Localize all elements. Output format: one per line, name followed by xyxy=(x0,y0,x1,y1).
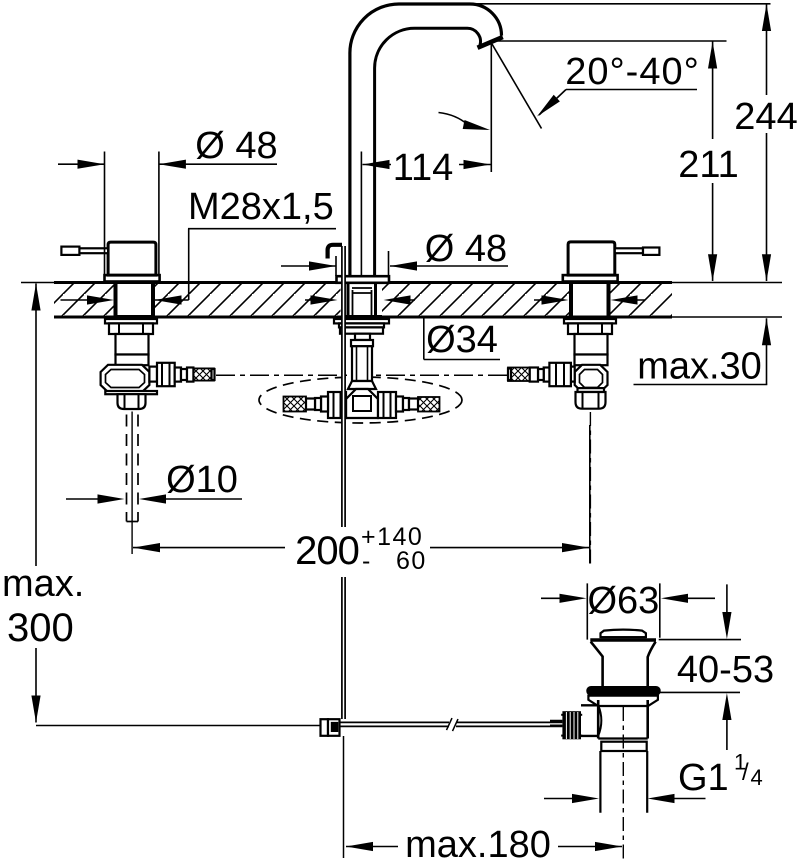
hatching xyxy=(54,284,114,316)
svg-text:200: 200 xyxy=(295,529,359,573)
svg-text:max.: max. xyxy=(2,563,84,605)
rod clamp block xyxy=(328,719,340,736)
knurled adjuster knob xyxy=(562,711,581,739)
swivel envelope dashed ellipse xyxy=(259,377,462,423)
left valve washer xyxy=(105,319,157,323)
svg-text:40-53: 40-53 xyxy=(677,649,774,691)
center right adapter rings xyxy=(396,397,403,412)
dim G1 1/4 xyxy=(544,798,706,800)
waste plug cap xyxy=(601,630,646,638)
svg-text:Ø 48: Ø 48 xyxy=(425,228,507,270)
counter bottom extension line right xyxy=(672,316,782,318)
counter top surface line xyxy=(54,281,672,284)
svg-text:Ø10: Ø10 xyxy=(166,459,238,501)
dim Ø10 xyxy=(66,498,242,500)
horizontal rod stub into knob xyxy=(550,721,562,726)
left handle lever paddle xyxy=(61,247,79,255)
right valve block xyxy=(575,365,608,392)
left valve hose adapter xyxy=(175,368,181,382)
rod clamp left stub xyxy=(321,719,329,736)
rod break marks xyxy=(447,718,459,731)
center tee nut xyxy=(340,327,383,333)
right handle lever stem xyxy=(615,248,643,253)
center supply shank tube xyxy=(351,340,373,346)
dim Ø48 center: dimension lines xyxy=(281,265,508,267)
below-counter assemblies xyxy=(101,319,616,564)
above-counter faucet xyxy=(61,4,659,719)
center tee collar xyxy=(348,381,376,389)
svg-text:max.30: max.30 xyxy=(637,346,762,388)
waste coupling ring xyxy=(601,742,646,751)
svg-text:Ø34: Ø34 xyxy=(426,319,498,361)
svg-text:max.180: max.180 xyxy=(405,824,551,863)
spout inner contour xyxy=(375,28,481,276)
dim 114: extension lines xyxy=(360,152,362,277)
svg-text:-: - xyxy=(362,547,372,575)
waste tailpipe xyxy=(600,751,647,813)
right valve shank walls in hole xyxy=(569,284,573,317)
right valve compression nut xyxy=(549,363,571,386)
dim Ø63: dimension lines xyxy=(541,597,715,599)
dim max.30 xyxy=(766,318,768,384)
horizontal actuating rod xyxy=(340,722,450,726)
left handle lever stem xyxy=(79,248,108,253)
countertop hatched section xyxy=(21,283,782,320)
waste washer lip xyxy=(588,696,658,706)
right valve mounting nut xyxy=(568,323,612,334)
right valve washer xyxy=(564,319,616,323)
right valve braided hose xyxy=(508,368,530,382)
waste drain assembly xyxy=(550,630,661,860)
svg-text:4: 4 xyxy=(751,765,763,790)
left valve shank walls in hole xyxy=(114,284,118,317)
counter bottom line xyxy=(54,316,672,319)
Ø10 dashed hole outline xyxy=(127,415,139,522)
dim Ø48 left: dimension lines xyxy=(58,163,277,165)
svg-text:M28x1,5: M28x1,5 xyxy=(188,186,334,228)
dim M28 left valve arrows xyxy=(61,299,189,301)
dim 244: extension line xyxy=(468,3,771,5)
spout escutcheon xyxy=(337,276,390,283)
swivel arc arrow xyxy=(439,113,468,125)
svg-text:20°-40°: 20°-40° xyxy=(565,51,700,93)
svg-text:211: 211 xyxy=(678,144,739,186)
right valve lower nut xyxy=(576,392,606,409)
dim 20°-40°: leader and label xyxy=(566,89,697,91)
center shank walls in hole xyxy=(347,284,350,317)
waste O-ring seal xyxy=(586,686,660,696)
center tee left nut xyxy=(328,392,346,418)
center tee body xyxy=(346,389,378,418)
left valve mounting nut xyxy=(109,323,153,334)
left handle base escutcheon xyxy=(105,275,160,281)
right valve lower washer xyxy=(578,388,605,392)
dim Ø48 left: extension lines xyxy=(105,152,159,277)
right valve outlet stub xyxy=(571,367,575,382)
dim Ø63: extension lines xyxy=(587,583,660,639)
right valve shank body xyxy=(575,334,608,355)
left valve compression nut xyxy=(157,363,175,386)
svg-text:300: 300 xyxy=(7,606,74,650)
left valve outlet stub xyxy=(149,367,157,382)
dim 244: dimension line xyxy=(766,4,768,281)
spout outlet cut face xyxy=(478,37,503,48)
svg-text:G1: G1 xyxy=(678,757,729,799)
dim 20°-40°: stream direction line xyxy=(492,44,542,129)
dim 40-53 xyxy=(659,584,741,639)
waste funnel rim xyxy=(590,638,656,641)
right handle body xyxy=(568,242,615,275)
svg-text:Ø63: Ø63 xyxy=(587,580,659,622)
dim 211: dimension line xyxy=(712,42,714,282)
dim 114: dimension lines xyxy=(363,164,491,166)
right handle lever paddle xyxy=(643,248,659,255)
waste funnel neck xyxy=(591,642,656,686)
rod below clamp (extension) xyxy=(343,736,345,858)
spout outer contour xyxy=(350,4,502,276)
waste body xyxy=(598,700,648,739)
dim Ø48 center: extension lines xyxy=(336,251,389,276)
waste centerline dash-dot xyxy=(622,707,624,860)
dim M28 right valve arrows xyxy=(534,299,645,301)
waste side port xyxy=(581,705,598,736)
dim max.300 xyxy=(35,284,37,723)
dim 200 +140/-60 xyxy=(133,547,589,549)
svg-text:114: 114 xyxy=(393,147,454,189)
left valve lower washer xyxy=(105,391,157,394)
dim 211: extension line xyxy=(494,40,727,42)
dim Ø34: arrows at center hole xyxy=(305,299,415,301)
left valve braided hose xyxy=(193,368,214,380)
left valve block xyxy=(101,365,150,392)
svg-text:Ø 48: Ø 48 xyxy=(195,125,277,167)
counter top extension line left xyxy=(21,282,54,284)
counter top extension line right xyxy=(672,282,782,284)
left valve centerline xyxy=(131,412,133,555)
hose centerline dash-dot xyxy=(216,374,508,376)
center left braided hose stub xyxy=(284,397,307,412)
pop-up rod linkage xyxy=(321,718,563,858)
svg-text:/: / xyxy=(742,759,749,786)
svg-text:60: 60 xyxy=(396,547,427,575)
left valve lower nut xyxy=(118,394,146,409)
pop-up rod hook xyxy=(328,245,342,259)
left handle body xyxy=(108,242,156,275)
dim Ø34: leader and label xyxy=(424,318,500,360)
center left adapter rings xyxy=(321,397,328,412)
right handle base escutcheon xyxy=(563,275,618,281)
pop-up rod (vertical, through tee) xyxy=(342,246,345,719)
right valve hose adapter xyxy=(544,368,550,382)
dim max.180 xyxy=(346,846,622,848)
left valve shank body xyxy=(116,334,149,355)
center tee right nut xyxy=(378,392,396,418)
center tee washer xyxy=(334,319,389,323)
center right braided hose stub xyxy=(418,397,440,412)
right valve centerline dash-dot xyxy=(589,412,591,564)
svg-text:244: 244 xyxy=(734,96,797,138)
